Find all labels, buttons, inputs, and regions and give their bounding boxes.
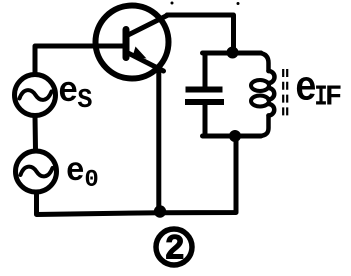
svg-text:2: 2 [165, 230, 185, 270]
svg-text:e: e [66, 152, 85, 190]
svg-text:e: e [58, 72, 78, 113]
svg-text:e: e [295, 64, 317, 112]
svg-text:0: 0 [84, 167, 98, 194]
svg-text:S: S [77, 84, 92, 115]
svg-text:F: F [325, 80, 342, 113]
